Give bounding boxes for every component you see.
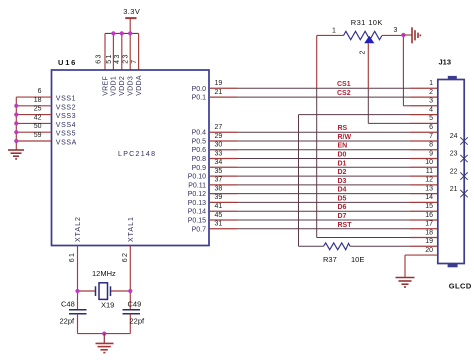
svg-text:34: 34 [215,159,223,166]
svg-text:23: 23 [450,151,458,158]
svg-text:51: 51 [106,53,113,64]
wire VDD top bus [105,32,139,34]
svg-text:RST: RST [338,222,353,229]
wire stub J13 pin20 [405,254,438,256]
svg-text:29: 29 [215,133,223,140]
wire VDD3 stub pin23 [129,33,131,70]
svg-text:15: 15 [425,203,433,210]
ground left [8,150,24,159]
svg-text:VSS3: VSS3 [56,113,76,120]
potentiometer R31 [317,18,404,40]
svg-text:CS2: CS2 [337,90,351,97]
svg-text:41: 41 [215,203,223,210]
wire stub J13 pin8 [410,149,438,151]
svg-text:12: 12 [425,177,433,184]
svg-text:U16: U16 [58,58,77,67]
wire net to J13 pin18 run [317,237,410,239]
wire net D6 run [237,210,410,212]
wire stub J13 pin16 [410,219,438,221]
svg-text:4: 4 [429,106,433,113]
svg-text:LPC2148: LPC2148 [118,151,156,158]
junction dots VSS bus [14,104,18,108]
svg-text:37: 37 [215,177,223,184]
wire VDD2 stub pin43 [121,33,123,70]
svg-text:45: 45 [215,212,223,219]
connector J13 [438,58,472,291]
ground bottom right [396,278,415,288]
svg-text:XTAL2: XTAL2 [75,216,82,242]
wire VSSA pin59 [16,140,51,142]
crystal X19 [78,269,131,310]
svg-text:VREF: VREF [102,76,109,96]
wire stub U16 P0.1 pin21 [209,96,237,98]
resistor R37 10E [299,243,411,264]
svg-text:VSS5: VSS5 [56,131,76,138]
pin XTAL1 stub 62 [129,246,131,310]
svg-text:P0.10: P0.10 [188,174,206,181]
wire stub J13 pin5 [410,122,438,124]
power 3.3V [123,7,140,34]
wire VSS2 pin18 [16,105,51,107]
wire stub J13 pin17 [410,228,438,230]
svg-text:P0.14: P0.14 [188,209,206,216]
wire net D5 run [237,201,410,203]
svg-text:6: 6 [429,124,433,131]
svg-text:19: 19 [215,80,223,87]
svg-text:P0.7: P0.7 [192,226,207,233]
wire row4 vertical to R37 [298,115,300,247]
wire VDDA stub pin7 [138,33,140,70]
wire stub U16 P0.6 pin30 [209,149,237,151]
wire R31 pin3 down to row3 [402,35,404,85]
svg-text:P0.5: P0.5 [192,139,207,146]
svg-text:61: 61 [69,252,76,263]
svg-text:7: 7 [429,133,433,140]
wire VSS1 pin6 [16,96,51,98]
junction dot XTAL1 [128,289,132,293]
svg-text:EN: EN [338,143,348,150]
wire R31 pin1 down to row18 [316,35,318,87]
capacitor C48 [60,300,87,334]
svg-text:P0.11: P0.11 [188,182,206,189]
wire stub J13 pin12 [410,184,438,186]
wire stub U16 P0.12 pin38 [209,193,237,195]
wire stub U16 P0.5 pin29 [209,140,237,142]
svg-text:P0.12: P0.12 [188,191,206,198]
svg-text:VSS4: VSS4 [56,122,76,129]
svg-text:18: 18 [425,229,433,236]
svg-text:D1: D1 [338,160,347,167]
svg-text:18: 18 [34,97,42,104]
svg-text:21: 21 [450,186,458,193]
svg-text:RS: RS [338,125,348,132]
svg-text:62: 62 [122,252,129,263]
capacitor C49 [123,300,146,334]
wire net D3 run [237,184,410,186]
wire VSS4 pin42 [16,122,51,124]
svg-text:3.3V: 3.3V [123,7,140,16]
svg-text:P0.6: P0.6 [192,147,207,154]
wire net to J13 pin4 run [299,114,411,116]
wire stub J13 pin3 [410,105,438,107]
wire net RST run [237,228,410,230]
ground bottom middle [96,343,114,352]
wire crystal bottom [78,333,131,335]
wire stub J13 pin2 [410,96,438,98]
wire net to J13 pin5 run [368,122,410,124]
wire net D2 run [237,175,410,177]
svg-text:D7: D7 [338,213,347,220]
svg-text:R37: R37 [323,255,337,264]
svg-text:D0: D0 [338,152,347,159]
wire R31 wiper down to row5 [367,43,369,90]
wire net D1 run [237,166,410,168]
svg-text:D5: D5 [338,195,347,202]
wire stub J13 pin10 [410,166,438,168]
svg-text:D4: D4 [338,187,347,194]
svg-text:P0.9: P0.9 [192,165,207,172]
wire net D4 run [237,193,410,195]
wire stub J13 pin19 [410,245,438,247]
svg-text:P0.15: P0.15 [188,218,206,225]
svg-text:VDD1: VDD1 [111,76,118,96]
wire stub U16 P0.9 pin34 [209,166,237,168]
wire net CS1 run [237,87,410,89]
junction dot R31 pin3 [401,33,405,37]
wire stub J13 pin11 [410,175,438,177]
svg-text:59: 59 [34,132,42,139]
svg-text:VSS1: VSS1 [56,96,76,103]
wire net to J13 pin3 run [403,105,410,107]
wire stub U16 P0.15 pin45 [209,219,237,221]
svg-text:D6: D6 [338,204,347,211]
svg-text:50: 50 [34,123,42,130]
svg-text:24: 24 [450,133,458,140]
svg-text:D2: D2 [338,169,347,176]
svg-text:17: 17 [425,221,433,228]
svg-text:1: 1 [332,28,336,35]
svg-text:22pf: 22pf [130,317,146,326]
wire stub J13 pin13 [410,193,438,195]
svg-text:31: 31 [215,221,223,228]
junction dot bottom [102,332,106,336]
wire stub J13 pin15 [410,210,438,212]
svg-text:5: 5 [429,115,433,122]
svg-text:P0.8: P0.8 [192,156,207,163]
svg-text:43: 43 [114,53,121,64]
wire stub J13 pin1 [410,87,438,89]
svg-text:9: 9 [429,150,433,157]
wire pin20 to ground [404,255,406,277]
junction dot XTAL2 [75,289,79,293]
svg-text:VDD3: VDD3 [128,76,135,96]
wire stub U16 P0.10 pin35 [209,175,237,177]
wire stub J13 pin9 [410,158,438,160]
svg-text:33: 33 [215,150,223,157]
wire stub J13 pin18 [410,237,438,239]
wire stub U16 P0.13 pin39 [209,201,237,203]
wire VSS bus vertical [15,97,17,150]
wire stub U16 P0.4 pin27 [209,131,237,133]
wire stub U16 P0.8 pin33 [209,158,237,160]
chip U16 LPC2148 box [52,70,210,246]
svg-text:14: 14 [425,194,433,201]
wire stub U16 P0.14 pin41 [209,210,237,212]
svg-text:8: 8 [429,142,433,149]
svg-text:11: 11 [426,168,433,175]
svg-text:42: 42 [34,114,42,121]
svg-text:38: 38 [215,185,223,192]
wire net R/W run [237,140,410,142]
svg-text:VDDA: VDDA [136,75,143,96]
wire net CS2 run [237,96,410,98]
svg-text:16: 16 [425,212,433,219]
wire stub U16 P0.7 pin31 [209,228,237,230]
connector right no-connect pins 24 23 22 21 [450,133,468,197]
svg-text:C49: C49 [128,300,142,309]
svg-text:P0.0: P0.0 [192,86,207,93]
svg-text:P0.1: P0.1 [192,95,207,102]
wire net D0 run [237,158,410,160]
wire net RS run [237,131,410,133]
svg-text:GLCD: GLCD [449,281,472,290]
svg-text:63: 63 [95,53,102,64]
svg-text:P0.4: P0.4 [192,130,207,137]
svg-text:VSS2: VSS2 [56,104,76,111]
svg-text:6: 6 [38,88,42,95]
R31 wiper arrow [364,36,374,44]
svg-text:35: 35 [215,168,223,175]
connector pin numbers 1-20 [425,80,433,254]
svg-text:2: 2 [429,89,433,96]
svg-text:7: 7 [131,60,138,64]
junction dots top bus [111,31,115,35]
wire stub U16 P0.11 pin37 [209,184,237,186]
wire VDD1 stub pin51 [112,33,114,70]
svg-text:13: 13 [425,185,433,192]
wire stub J13 pin6 [410,131,438,133]
wire to ground bottom [103,334,105,344]
svg-text:12MHz: 12MHz [92,269,116,278]
svg-text:C48: C48 [61,300,75,309]
wire stub J13 pin14 [410,201,438,203]
svg-text:VDD2: VDD2 [119,76,126,96]
svg-text:23: 23 [122,53,129,64]
ground sideways at R31 pin3 [403,27,420,43]
svg-text:VSSA: VSSA [56,140,77,147]
svg-text:CS1: CS1 [337,81,351,88]
svg-text:10: 10 [425,159,433,166]
svg-text:20: 20 [425,247,433,254]
svg-text:19: 19 [425,238,433,245]
svg-text:1: 1 [429,80,433,87]
svg-text:30: 30 [215,142,223,149]
svg-text:R/W: R/W [338,134,352,141]
svg-text:XTAL1: XTAL1 [128,216,135,242]
svg-text:3: 3 [429,98,433,105]
svg-text:22: 22 [450,168,458,175]
wire stub J13 pin7 [410,140,438,142]
wire stub J13 pin4 [410,114,438,116]
svg-text:10E: 10E [351,255,364,264]
svg-text:D3: D3 [338,178,347,185]
wire net EN run [237,149,410,151]
svg-text:2: 2 [360,51,367,55]
wire VSS5 pin50 [16,131,51,133]
svg-text:R31 10K: R31 10K [351,18,383,27]
svg-text:25: 25 [34,106,42,113]
svg-text:P0.13: P0.13 [188,200,206,207]
wire stub U16 P0.0 pin19 [209,87,237,89]
svg-text:21: 21 [215,89,223,96]
wire VREF stub pin63 [104,33,106,70]
pin XTAL2 stub 61 [77,246,79,310]
wire VSS3 pin25 [16,114,51,116]
svg-text:39: 39 [215,194,223,201]
svg-text:J13: J13 [439,58,452,67]
wire net D7 run [237,219,410,221]
svg-text:27: 27 [215,124,223,131]
svg-text:3: 3 [394,27,398,34]
svg-text:X19: X19 [101,301,114,310]
svg-text:22pf: 22pf [60,317,76,326]
